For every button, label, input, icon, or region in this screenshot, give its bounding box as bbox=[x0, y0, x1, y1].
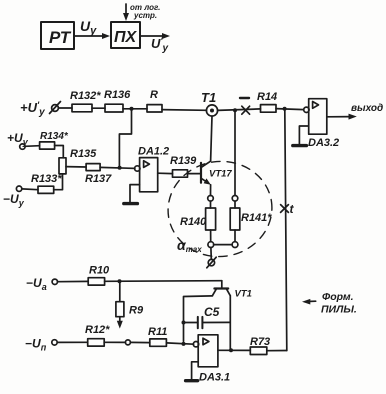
wire from node down to DA1.2 input bbox=[119, 109, 131, 168]
node junction bbox=[182, 342, 186, 346]
svg-text:DA3.1: DA3.1 bbox=[199, 372, 230, 384]
wire bbox=[92, 107, 105, 109]
arrow from logic unit into PH bbox=[123, 4, 129, 21]
minus mark bbox=[240, 97, 249, 99]
svg-text:VT1: VT1 bbox=[235, 289, 252, 300]
resistor R139 bbox=[173, 170, 188, 177]
terminal -Uy bbox=[16, 186, 21, 191]
svg-text:VT17: VT17 bbox=[209, 169, 232, 180]
wire bbox=[58, 280, 89, 282]
wire VT1 right leg down to output node bbox=[229, 296, 231, 350]
svg-text:ПХ: ПХ bbox=[114, 29, 138, 46]
X t mark on right wire bbox=[281, 205, 289, 213]
wire bbox=[234, 230, 236, 242]
op-amp DA3.2 bbox=[304, 99, 327, 135]
block PT bbox=[41, 22, 74, 49]
output wire DA1.2 bbox=[158, 172, 173, 174]
wire noninverting input DA1.2 bbox=[130, 185, 140, 202]
node junction bbox=[283, 107, 287, 111]
wire bbox=[166, 343, 193, 344]
ground DA3.2 bbox=[293, 144, 307, 147]
pin circle above R141 bbox=[232, 196, 238, 202]
wire bbox=[210, 230, 212, 242]
wire noninverting input DA3.2 bbox=[299, 126, 308, 144]
long right vertical wire bbox=[285, 109, 287, 351]
svg-text:R134*: R134* bbox=[40, 131, 69, 142]
terminal -Up bbox=[52, 340, 57, 345]
wire down to terminal bbox=[210, 248, 212, 260]
node junction bbox=[229, 348, 233, 352]
terminal -Ua bbox=[52, 279, 57, 284]
ground DA3.1 bbox=[186, 379, 198, 382]
resistor R137 bbox=[86, 164, 100, 171]
wire bbox=[123, 108, 147, 110]
node junction bbox=[130, 107, 134, 111]
wire bbox=[100, 167, 135, 168]
transistor VT17 bbox=[201, 161, 211, 185]
svg-text:R73: R73 bbox=[250, 336, 270, 348]
svg-text:R140: R140 bbox=[180, 216, 207, 228]
svg-text:РТ: РТ bbox=[49, 28, 72, 47]
wire bbox=[210, 201, 212, 208]
wire bbox=[57, 341, 87, 343]
svg-text:Т1: Т1 bbox=[201, 90, 216, 105]
arrow below R9 bbox=[117, 317, 123, 329]
wire bbox=[104, 341, 125, 343]
wire to VT1 bbox=[105, 280, 222, 283]
resistor R134 bbox=[40, 142, 55, 149]
terminal slashed circle (wiper) bbox=[207, 257, 216, 268]
svg-text:R12*: R12* bbox=[85, 324, 110, 336]
wire bbox=[22, 188, 38, 191]
svg-text:R133*: R133* bbox=[31, 173, 62, 185]
wire between node circles bbox=[214, 244, 232, 246]
output arrow U'y bbox=[140, 33, 170, 39]
node junction bbox=[233, 108, 237, 112]
test point T1 bbox=[206, 105, 217, 116]
svg-text:ПИЛЫ.: ПИЛЫ. bbox=[321, 304, 357, 316]
resistor R132 bbox=[72, 104, 92, 112]
resistor R133 bbox=[38, 186, 54, 193]
wire bbox=[54, 174, 63, 190]
svg-text:R9: R9 bbox=[129, 305, 144, 317]
wire R73 to right vertical bbox=[267, 350, 287, 352]
svg-text:R132*: R132* bbox=[70, 90, 101, 102]
op-amp DA3.1 bbox=[193, 335, 218, 367]
svg-text:R135: R135 bbox=[70, 148, 97, 160]
svg-text:DA1.2: DA1.2 bbox=[138, 146, 169, 158]
svg-text:Форм.: Форм. bbox=[322, 291, 354, 303]
wire R135 to R137 bbox=[66, 166, 86, 168]
resistor R bbox=[147, 105, 162, 112]
resistor R12 bbox=[88, 339, 105, 346]
resistor R9 (vertical) bbox=[116, 302, 124, 317]
svg-text:устр.: устр. bbox=[133, 11, 157, 20]
resistor R136 bbox=[105, 104, 123, 112]
capacitor C5 bbox=[184, 317, 231, 328]
terminal +U'y (slashed circle) bbox=[50, 102, 61, 114]
X mark on wire bbox=[242, 106, 250, 114]
node junction bbox=[118, 166, 122, 170]
transistor VT1 bbox=[212, 281, 230, 296]
svg-text:R11: R11 bbox=[148, 326, 167, 338]
resistor R135 (vertical) bbox=[59, 158, 66, 174]
pin circle bbox=[125, 340, 130, 345]
resistor R73 bbox=[250, 347, 266, 355]
block PH bbox=[111, 22, 140, 48]
wire from T1 node down to R141 bbox=[234, 110, 236, 195]
wire bbox=[55, 146, 64, 158]
svg-text:C5: C5 bbox=[204, 305, 220, 319]
pin circle above R140 bbox=[208, 196, 214, 202]
svg-text:R10: R10 bbox=[89, 265, 110, 277]
wire bbox=[130, 341, 149, 343]
wire bbox=[218, 109, 261, 111]
resistor R141 (vertical) bbox=[230, 208, 240, 230]
node circle right bbox=[232, 242, 238, 248]
wire bbox=[276, 109, 304, 110]
output wire with arrow bbox=[327, 114, 357, 120]
resistor R10 bbox=[88, 278, 104, 285]
resistor R140 (vertical) bbox=[206, 208, 216, 230]
svg-text:R137: R137 bbox=[85, 173, 112, 185]
wire PT to PH with arrow bbox=[74, 33, 110, 39]
resistor R11 bbox=[150, 339, 167, 346]
wire bbox=[58, 107, 72, 109]
wire down to R9 bbox=[119, 281, 121, 301]
ground DA1.2 bbox=[124, 202, 138, 205]
svg-text:DA3.2: DA3.2 bbox=[308, 137, 339, 149]
wire noninverting input DA3.1 bbox=[192, 362, 199, 379]
arrow form pila bbox=[302, 299, 316, 305]
svg-text:R139: R139 bbox=[170, 155, 197, 167]
output wire DA3.1 bbox=[218, 349, 250, 351]
wire bbox=[234, 201, 236, 208]
svg-text:R14: R14 bbox=[257, 91, 277, 103]
wire bbox=[162, 109, 207, 112]
svg-text:выход: выход bbox=[351, 103, 383, 114]
node circle left bbox=[208, 242, 214, 248]
wire bbox=[188, 173, 202, 175]
dashed selection ellipse bbox=[162, 155, 278, 264]
svg-text:R: R bbox=[150, 89, 158, 101]
node junction bbox=[118, 279, 122, 283]
svg-text:R136: R136 bbox=[104, 89, 131, 101]
terminal +Uy bbox=[20, 144, 25, 149]
resistor R14 bbox=[261, 105, 277, 113]
wire collector VT17 to T1 bbox=[211, 116, 212, 161]
node junction C5 tap bbox=[182, 321, 186, 325]
op-amp DA1.2 bbox=[135, 158, 158, 192]
wire VT1 left leg to feedback rail bbox=[184, 296, 213, 342]
wire emitter VT17 down bbox=[210, 185, 212, 196]
svg-text:R141*: R141* bbox=[241, 212, 272, 224]
wire bbox=[25, 145, 39, 148]
